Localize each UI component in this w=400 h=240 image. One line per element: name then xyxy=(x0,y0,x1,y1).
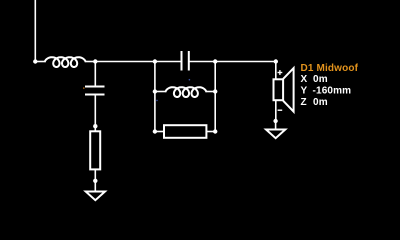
wire node M to ground 2 xyxy=(275,121,277,130)
node D corner junction xyxy=(274,59,278,63)
svg-text:0m: 0m xyxy=(313,74,328,85)
capacitor C2 xyxy=(85,87,105,95)
capacitor C3 xyxy=(182,51,189,71)
node G junction block left middle xyxy=(153,89,157,93)
ground 1 xyxy=(86,192,105,201)
svg-text:X: X xyxy=(301,74,308,85)
wire block left vertical xyxy=(154,62,156,132)
node E junction xyxy=(93,124,97,128)
speaker D1 body xyxy=(274,79,284,100)
wire R2 right to node K xyxy=(206,131,215,133)
svg-text:Z: Z xyxy=(301,97,307,108)
node F junction xyxy=(93,179,97,183)
ground 2 xyxy=(266,130,285,139)
wire to R2 left xyxy=(155,131,164,133)
label X position value xyxy=(301,74,328,85)
speaker D1 plus terminal label xyxy=(278,70,283,75)
speaker D1 cone xyxy=(283,68,294,112)
wire input vertical xyxy=(34,0,36,62)
wire block right vertical xyxy=(214,62,216,132)
resistor R1 xyxy=(90,131,100,169)
wire L1 right stub xyxy=(86,61,96,63)
pin marker L2 bottom-left (blue) xyxy=(156,100,158,102)
wire speaker to node M xyxy=(275,100,277,121)
node B junction top-left of RLC block xyxy=(153,59,157,63)
node IN junction xyxy=(33,59,37,63)
node C junction top-right of RLC block xyxy=(213,59,217,63)
node M junction xyxy=(273,119,277,123)
wire down to speaker plus terminal xyxy=(275,62,277,80)
wire node E to R1 xyxy=(94,126,96,131)
pin 1 marker C2 (orange dot) xyxy=(83,87,85,89)
wire from C3 right plate xyxy=(189,61,215,63)
label Y position value xyxy=(301,86,352,97)
svg-text:0m: 0m xyxy=(313,97,328,108)
node J junction block bottom-left xyxy=(153,129,157,133)
speaker D1 minus terminal label xyxy=(278,109,283,111)
wire L1 left stub xyxy=(35,61,45,63)
wire to C3 left plate xyxy=(155,61,181,63)
resistor R2 xyxy=(164,125,206,138)
inductor L2 xyxy=(165,87,206,97)
inductor L1 xyxy=(45,57,86,67)
node A junction xyxy=(93,59,97,63)
wire C2 to node E xyxy=(94,95,96,127)
wire L2 left stub xyxy=(155,91,166,93)
wire R1 to node F xyxy=(94,169,96,180)
node K junction block bottom-right xyxy=(213,129,217,133)
wire node F to ground 1 xyxy=(94,181,96,192)
pin marker L2 top (blue) xyxy=(189,79,191,81)
svg-text:-160mm: -160mm xyxy=(313,86,352,97)
node H junction block right middle xyxy=(213,89,217,93)
label Z position value xyxy=(301,97,328,108)
wire L2 right stub xyxy=(206,91,215,93)
wire node A down to C2 xyxy=(94,62,96,86)
svg-text:Y: Y xyxy=(301,86,308,97)
svg-text:D1 Midwoof: D1 Midwoof xyxy=(301,63,359,74)
wire node A to block xyxy=(95,61,155,63)
wire node C to speaker corner xyxy=(215,61,276,63)
